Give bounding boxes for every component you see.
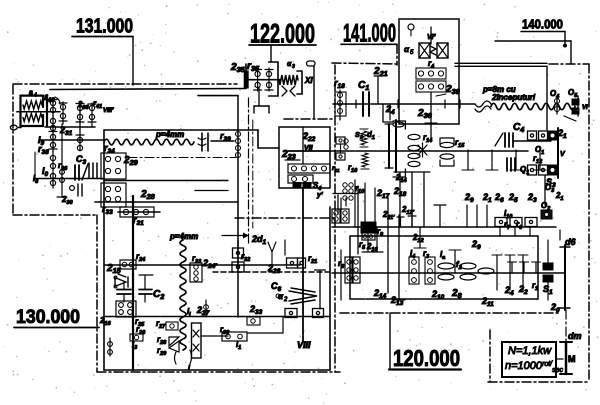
svg-text:VIII: VIII: [297, 340, 311, 350]
svg-text:2: 2: [283, 297, 288, 303]
svg-text:141.000: 141.000: [343, 20, 396, 48]
svg-text:2începuturi: 2începuturi: [491, 93, 536, 102]
svg-text:d6: d6: [565, 237, 576, 247]
svg-text:p=4mm: p=4mm: [169, 232, 198, 241]
svg-text:p=4mm: p=4mm: [155, 130, 184, 139]
svg-text:VI: VI: [582, 105, 588, 111]
svg-text:a: a: [29, 90, 33, 97]
svg-text:120.000: 120.000: [393, 345, 460, 371]
svg-text:dm: dm: [568, 331, 582, 341]
svg-text:M: M: [568, 354, 576, 364]
svg-text:131.000: 131.000: [76, 16, 133, 38]
svg-text:122.000: 122.000: [250, 18, 315, 48]
svg-text:3: 3: [292, 64, 295, 70]
svg-text:130.000: 130.000: [16, 307, 80, 328]
svg-text:140.000: 140.000: [522, 17, 563, 32]
svg-text:2: 2: [359, 135, 363, 141]
svg-text:4: 4: [34, 93, 37, 99]
svg-text:VI’: VI’: [427, 34, 437, 41]
svg-text:VIII’: VIII’: [103, 108, 114, 114]
svg-text:XI: XI: [304, 76, 313, 85]
